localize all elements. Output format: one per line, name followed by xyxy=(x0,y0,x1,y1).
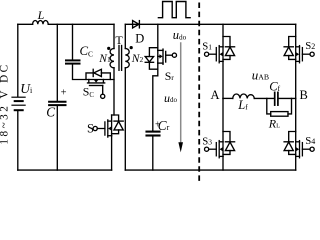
transistor Sr gate hline xyxy=(166,54,173,56)
transistor S1 xyxy=(205,46,224,63)
wire: C branch top xyxy=(56,24,58,100)
transformer T core line left xyxy=(118,46,120,71)
diode of S4 top link xyxy=(289,132,296,142)
arrow udo shaft xyxy=(180,43,182,143)
diode of S1 triangle xyxy=(225,47,234,56)
transistor Sc arrow xyxy=(94,80,98,83)
svg-text:SC: SC xyxy=(83,84,95,99)
arrow udo head xyxy=(178,142,183,152)
diode of S2 cathode bar xyxy=(284,46,293,48)
svg-text:udo: udo xyxy=(164,91,178,105)
wire: A to Lf xyxy=(223,97,233,99)
transistor Sc source stub xyxy=(102,80,104,83)
diode D triangle xyxy=(133,21,139,28)
transistor S4 drain lead from node B xyxy=(295,99,297,142)
wire: C branch bottom xyxy=(56,106,58,170)
battery Ui plate long top xyxy=(12,96,25,98)
wire: RL branch right xyxy=(288,98,292,114)
inductor Lf xyxy=(233,94,255,98)
capacitor Cf plate left xyxy=(274,92,276,105)
transistor S4 source lead xyxy=(295,156,297,170)
capacitor Cr plate top xyxy=(147,131,160,133)
diode of Sc triangle xyxy=(94,69,102,76)
wire: bottom rail secondary side xyxy=(125,169,295,171)
capacitor Cc plate top xyxy=(66,59,80,61)
svg-text:uAB: uAB xyxy=(252,68,269,83)
diode D cathode bar xyxy=(138,21,140,28)
transformer T secondary bottom lead xyxy=(124,68,126,170)
diode of S2 bottom link xyxy=(289,56,296,60)
diode of Sr cathode bar xyxy=(145,61,153,63)
diode of S1 top link xyxy=(223,37,230,47)
svg-text:N1: N1 xyxy=(98,53,111,65)
transistor S1 drain lead xyxy=(222,24,224,47)
square wave symbol xyxy=(158,2,190,18)
svg-text:L: L xyxy=(37,8,45,22)
diode of S3 cathode bar xyxy=(225,141,234,143)
diode of S1 cathode bar xyxy=(225,46,234,48)
transistor S drain lead xyxy=(111,115,113,121)
diode of Sc right leg xyxy=(101,73,110,80)
diode of S cathode bar xyxy=(114,120,123,122)
transistor Sr arrow xyxy=(159,54,162,58)
battery Ui plate short bottom xyxy=(15,109,23,111)
battery Ui plate short xyxy=(15,100,23,102)
wire: left rail bottom (below battery) xyxy=(17,111,19,170)
transistor S1 source lead to node A xyxy=(222,61,224,98)
capacitor Cr plate bottom xyxy=(147,134,160,136)
capacitor C plate top xyxy=(49,101,65,103)
transformer T core line right xyxy=(121,46,123,71)
transistor S4 xyxy=(296,141,315,158)
svg-text:C: C xyxy=(46,105,55,120)
transformer T primary top lead xyxy=(113,24,115,48)
battery Ui plate long xyxy=(12,104,25,106)
transformer T secondary top lead xyxy=(124,24,126,48)
wire: Cc branch from top rail xyxy=(72,24,74,59)
diode of S2 triangle xyxy=(284,47,293,56)
wire: Lf to Cf xyxy=(254,97,274,99)
transistor S3 xyxy=(205,141,224,158)
svg-text:RL: RL xyxy=(268,116,280,130)
svg-text:N2: N2 xyxy=(131,53,144,65)
diode of S3 triangle xyxy=(225,142,234,151)
transistor Sr top lead xyxy=(157,24,159,50)
diode of Sc left leg xyxy=(86,73,93,80)
svg-text:T: T xyxy=(115,33,123,47)
diode of S4 cathode bar xyxy=(284,141,293,143)
diode of Sc cathode bar xyxy=(92,69,94,76)
transistor S2 xyxy=(296,46,315,63)
transistor S2 source lead to node B xyxy=(295,61,297,98)
transistor S (main switch) xyxy=(93,120,112,137)
svg-text:S: S xyxy=(87,122,94,136)
diode of S top link xyxy=(112,115,119,121)
diode of S bottom link xyxy=(112,130,119,134)
transistor Sc gate lead xyxy=(102,86,104,95)
diode of S4 bottom link xyxy=(289,151,296,155)
transformer T primary dot xyxy=(107,47,110,50)
capacitor Cc plate bottom xyxy=(66,63,80,65)
transistor S source lead xyxy=(111,136,113,170)
svg-text:Ui: Ui xyxy=(20,81,33,96)
svg-text:S4: S4 xyxy=(305,135,315,147)
transistor Sr gate circle xyxy=(172,53,176,57)
diode of Sr top link xyxy=(149,48,157,57)
diode of S1 bottom link xyxy=(223,56,230,60)
transistor Sr lead vertical xyxy=(157,50,159,63)
transformer T primary winding xyxy=(110,49,114,68)
transformer T secondary winding xyxy=(125,49,129,68)
transistor S2 drain lead xyxy=(295,24,297,47)
svg-text:18~32 V DC: 18~32 V DC xyxy=(0,62,10,144)
transistor Sr gate bar xyxy=(165,51,167,62)
svg-text:CC: CC xyxy=(80,44,94,59)
diode of S4 triangle xyxy=(284,142,293,151)
diode of Sr triangle xyxy=(145,57,153,62)
wire: output top rail (secondary to bridge) xyxy=(125,23,295,25)
wire: top rail from L to transformer primary xyxy=(48,23,114,25)
svg-text:S2: S2 xyxy=(305,40,315,52)
transistor Sr source stub xyxy=(158,49,163,51)
svg-text:D: D xyxy=(135,32,144,46)
transistor Sr channel bar xyxy=(162,49,164,64)
diode of S3 top link xyxy=(223,132,230,142)
resistor RL box xyxy=(271,112,288,117)
transistor Sc drain stub xyxy=(88,80,90,83)
svg-text:S3: S3 xyxy=(202,135,212,147)
wire: left rail top (above battery) xyxy=(17,24,19,96)
wire: top rail left section with corner xyxy=(18,23,33,25)
transistor S3 source lead xyxy=(222,156,224,170)
inductor L xyxy=(33,21,49,25)
wire: Cc to Sc rail xyxy=(73,65,115,80)
svg-text:Cr: Cr xyxy=(158,118,170,133)
svg-text:Lf: Lf xyxy=(237,98,248,112)
transistor Sc gate bar xyxy=(90,85,103,87)
wire: Sr drain down to Cr xyxy=(153,63,158,131)
wire: Cf to B xyxy=(279,97,296,99)
transistor Sc channel bar xyxy=(88,82,105,84)
transistor S3 drain lead from node A xyxy=(222,99,224,142)
diode of S3 bottom link xyxy=(223,151,230,155)
wire: RL branch left xyxy=(267,98,271,114)
svg-text:Sr: Sr xyxy=(165,69,175,83)
svg-text:B: B xyxy=(300,88,308,102)
svg-text:A: A xyxy=(211,88,220,102)
diode of S triangle xyxy=(114,121,123,129)
wire: Cr bottom lead xyxy=(152,137,154,171)
capacitor Cf plate right xyxy=(277,92,279,105)
diode of Sr bottom link xyxy=(149,62,157,69)
svg-text:udo: udo xyxy=(173,28,187,42)
dashed separator line xyxy=(198,3,200,183)
svg-text:S1: S1 xyxy=(202,40,212,52)
transistor Sc gate circle xyxy=(101,94,105,98)
wire: bottom rail primary side xyxy=(18,169,112,171)
svg-text:Cf: Cf xyxy=(269,80,280,94)
capacitor C plate bottom xyxy=(49,104,65,106)
transformer T secondary dot xyxy=(130,46,133,49)
transformer T primary bottom lead xyxy=(113,68,115,115)
svg-text:+: + xyxy=(61,87,67,98)
diode of S2 top link xyxy=(289,37,296,47)
transistor Sr mid lead xyxy=(158,55,160,57)
transistor Sr drain stub xyxy=(158,62,163,64)
